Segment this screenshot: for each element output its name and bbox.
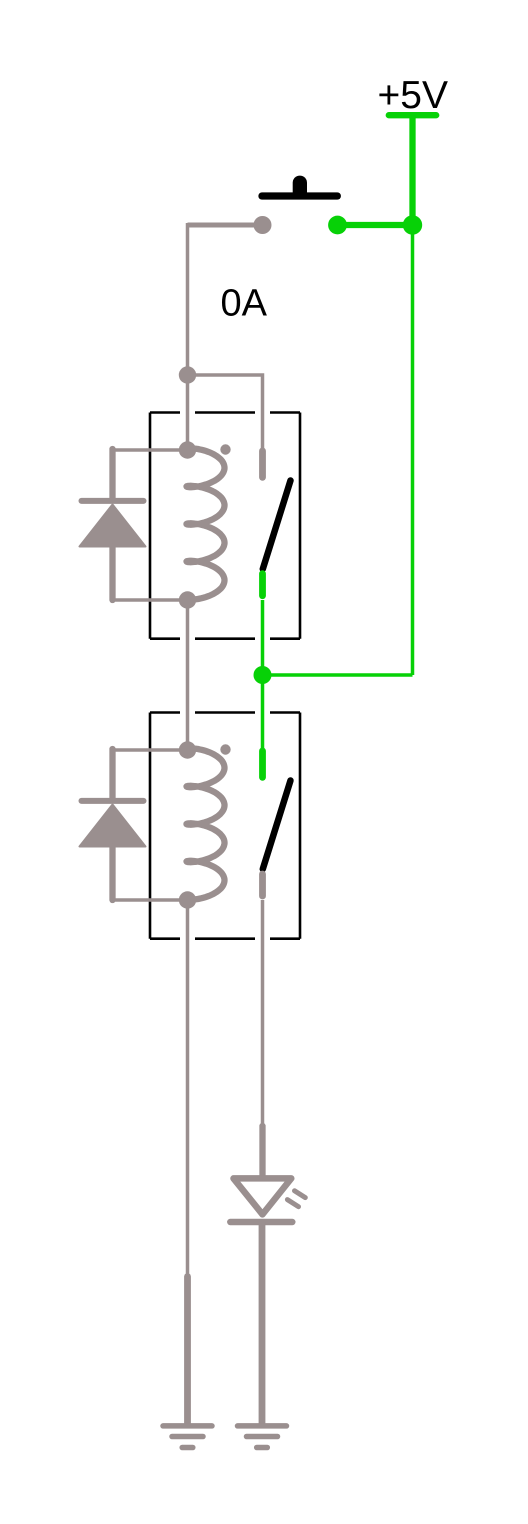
- relay RLY2 coil pin 2 dot: [179, 891, 196, 908]
- node green junction: [254, 666, 272, 684]
- svg-text:0A: 0A: [221, 283, 268, 325]
- relay RLY2 coil: [187, 748, 225, 899]
- ground GND1 lead: [184, 1277, 191, 1426]
- wire +5V down right side: [411, 225, 415, 675]
- +5V rail symbol V1: [389, 115, 436, 222]
- wire LED cathode to ground: [259, 1222, 266, 1425]
- relay RLY2 switch common post: [259, 751, 266, 778]
- diode D1: [80, 449, 146, 600]
- relay RLY2 switch blade: [263, 781, 291, 870]
- relay RLY1 box: [150, 413, 300, 639]
- relay RLY2 switch contact post: [259, 874, 266, 896]
- wire net A vertical (ammeter wire): [186, 223, 190, 375]
- relay RLY1 switch common post: [259, 451, 266, 478]
- ground GND1 symbol: [163, 1426, 212, 1448]
- relay RLY1 switch contact post: [259, 574, 266, 596]
- wire relay2 contact to LED: [261, 900, 265, 1124]
- relay RLY2 box: [150, 713, 300, 939]
- node junction +5V: [403, 215, 422, 234]
- wire relay2 coil bottom to ground: [186, 900, 190, 1274]
- ground GND2 symbol: [238, 1426, 287, 1448]
- wire green junction to +5V vertical: [263, 673, 413, 677]
- diode D2: [80, 749, 146, 900]
- diode D2 flyback wires: [113, 750, 188, 900]
- wire green junction down to relay2: [261, 675, 265, 750]
- node junction A: [179, 366, 196, 383]
- wire net A: button left to ammeter corner: [188, 223, 263, 228]
- relay RLY2 coil polarity dot: [220, 744, 230, 754]
- wire junction A to relay1 switch: [188, 375, 263, 450]
- diode D1 flyback wires: [113, 450, 188, 600]
- relay RLY1 coil polarity dot: [220, 444, 230, 454]
- relay RLY1 coil pin 1 dot: [179, 441, 196, 458]
- relay RLY1 switch blade: [263, 481, 291, 570]
- wire relay1 contact to green junction: [261, 600, 265, 675]
- LED D3: [230, 1126, 305, 1222]
- wire junction A to relay1 coil top: [186, 375, 190, 450]
- pushbutton SW1: [254, 176, 413, 235]
- relay RLY2 coil pin 1 dot: [179, 741, 196, 758]
- relay RLY1 coil: [187, 448, 225, 599]
- wire relay1 coil bottom to relay2 coil top: [186, 600, 190, 750]
- relay RLY1 coil pin 2 dot: [179, 591, 196, 608]
- svg-text:+5V: +5V: [378, 74, 448, 117]
